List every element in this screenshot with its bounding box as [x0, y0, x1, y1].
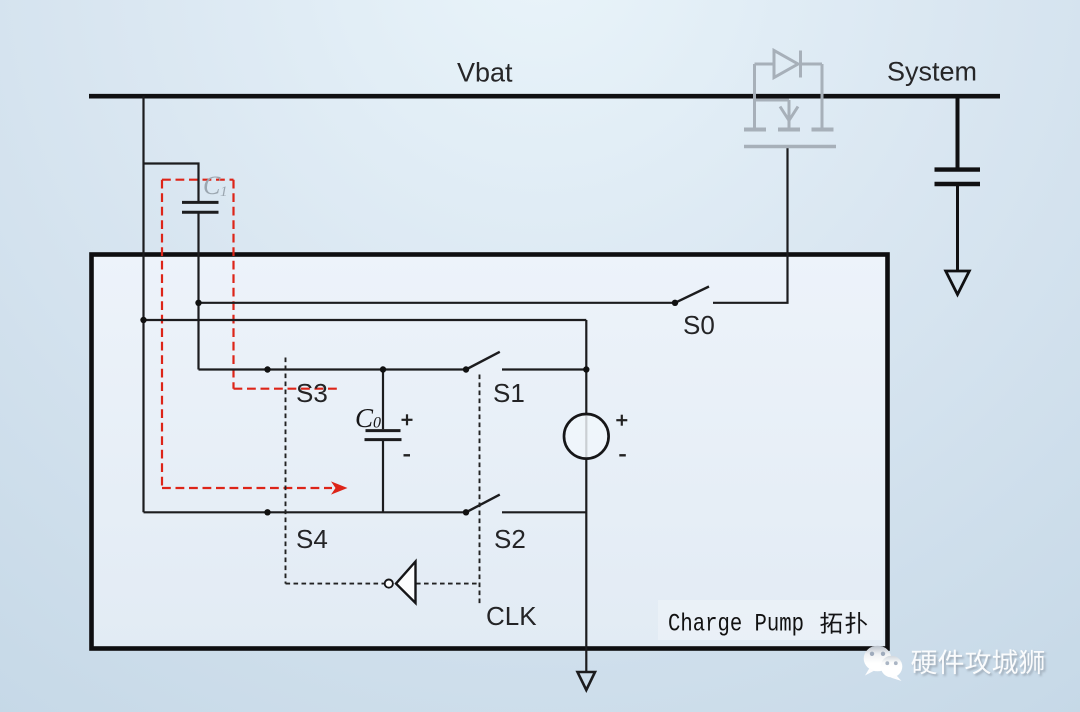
svg-text:C: C	[203, 171, 221, 200]
svg-text:S4: S4	[296, 524, 328, 554]
switch S1 blade	[466, 352, 500, 370]
wire: second row	[144, 319, 587, 321]
dashed CLK line left of inverter	[286, 583, 385, 585]
red current loop: bottom segment with arrow	[162, 487, 332, 489]
junction dot: C0 top	[380, 366, 386, 372]
junction dot: C1/S0 row	[195, 300, 201, 306]
switch S3 closed dot	[264, 366, 270, 372]
C0 plus mark	[402, 414, 413, 425]
wire: S3 row	[199, 368, 467, 370]
svg-text:S3: S3	[296, 378, 328, 408]
wire: C1 bottom to S3 row	[197, 213, 199, 370]
junction dot: left vertical/second row	[140, 317, 146, 323]
wire: S0 row right part, up to gate	[713, 148, 788, 303]
watermark wechat icon	[864, 646, 903, 681]
dashed control line S1/S2	[479, 375, 481, 606]
watermark text 硬件攻城狮 (SVG glyph paths)	[911, 649, 1046, 676]
red current loop: right vertical	[232, 180, 234, 389]
svg-text:S1: S1	[493, 378, 525, 408]
svg-text:Charge Pump: Charge Pump	[668, 610, 804, 639]
bulk tie and arrow	[755, 99, 790, 102]
transistor M0: PMOS pass FET with body diode (gray)	[744, 51, 836, 147]
junction dot: S1 row / source vertical	[583, 366, 589, 372]
caption highlight band	[658, 600, 883, 640]
svg-text:1: 1	[220, 184, 228, 200]
inverter bubble	[385, 580, 393, 588]
svg-text:0: 0	[373, 415, 381, 432]
red current loop: S3 branch	[234, 388, 338, 390]
red current loop: top segment over C1	[162, 179, 234, 181]
C0 minus mark	[404, 454, 411, 456]
source minus mark	[619, 454, 626, 456]
body diode cathode bar	[799, 51, 802, 78]
wire: S1 right part	[502, 368, 586, 370]
switch S2 hinge dot	[463, 509, 469, 515]
channel contact bars	[744, 128, 834, 132]
wire: left vertical drop from bus	[142, 96, 144, 512]
switch S0 hinge dot	[672, 300, 678, 306]
wire: source vertical down to ground	[585, 320, 587, 672]
switch S4 closed dot	[264, 509, 270, 515]
gate bar	[744, 145, 836, 148]
wire: jog to C1	[144, 164, 199, 203]
svg-text:S0: S0	[683, 310, 715, 340]
svg-text:System: System	[887, 57, 977, 87]
dashed control line S3/S4	[285, 358, 287, 584]
source plus mark	[616, 415, 627, 426]
wire: C0 top lead	[382, 370, 384, 430]
wire: bottom row right part	[502, 511, 586, 513]
svg-text:C: C	[355, 403, 374, 433]
dashed CLK line right of inverter	[416, 583, 480, 585]
charge pump box	[92, 255, 888, 649]
inverter triangle	[396, 562, 416, 604]
wire: bottom row left part	[144, 511, 467, 513]
svg-text:Vbat: Vbat	[457, 58, 513, 88]
wire: S0 row left part	[199, 302, 676, 304]
capacitor C0 plates	[365, 431, 402, 440]
svg-text:CLK: CLK	[486, 601, 537, 631]
ground under source	[578, 672, 596, 690]
wire: Vbat bus	[89, 94, 1000, 99]
wire: C0 bottom lead	[382, 441, 384, 512]
body diode triangle	[774, 51, 798, 78]
capacitor C1 plates	[182, 202, 219, 212]
svg-text:S2: S2	[494, 524, 526, 554]
system output capacitor	[935, 96, 981, 295]
red current loop: left vertical	[161, 180, 163, 488]
voltage source circle	[564, 414, 609, 459]
caption: 拓扑 (SVG glyph paths)	[820, 612, 867, 634]
ground under system capacitor	[946, 271, 970, 295]
switch S2 blade	[466, 495, 500, 513]
red arrowhead	[331, 481, 348, 494]
switch S0 blade	[675, 287, 709, 303]
switch S1 hinge dot	[463, 366, 469, 372]
